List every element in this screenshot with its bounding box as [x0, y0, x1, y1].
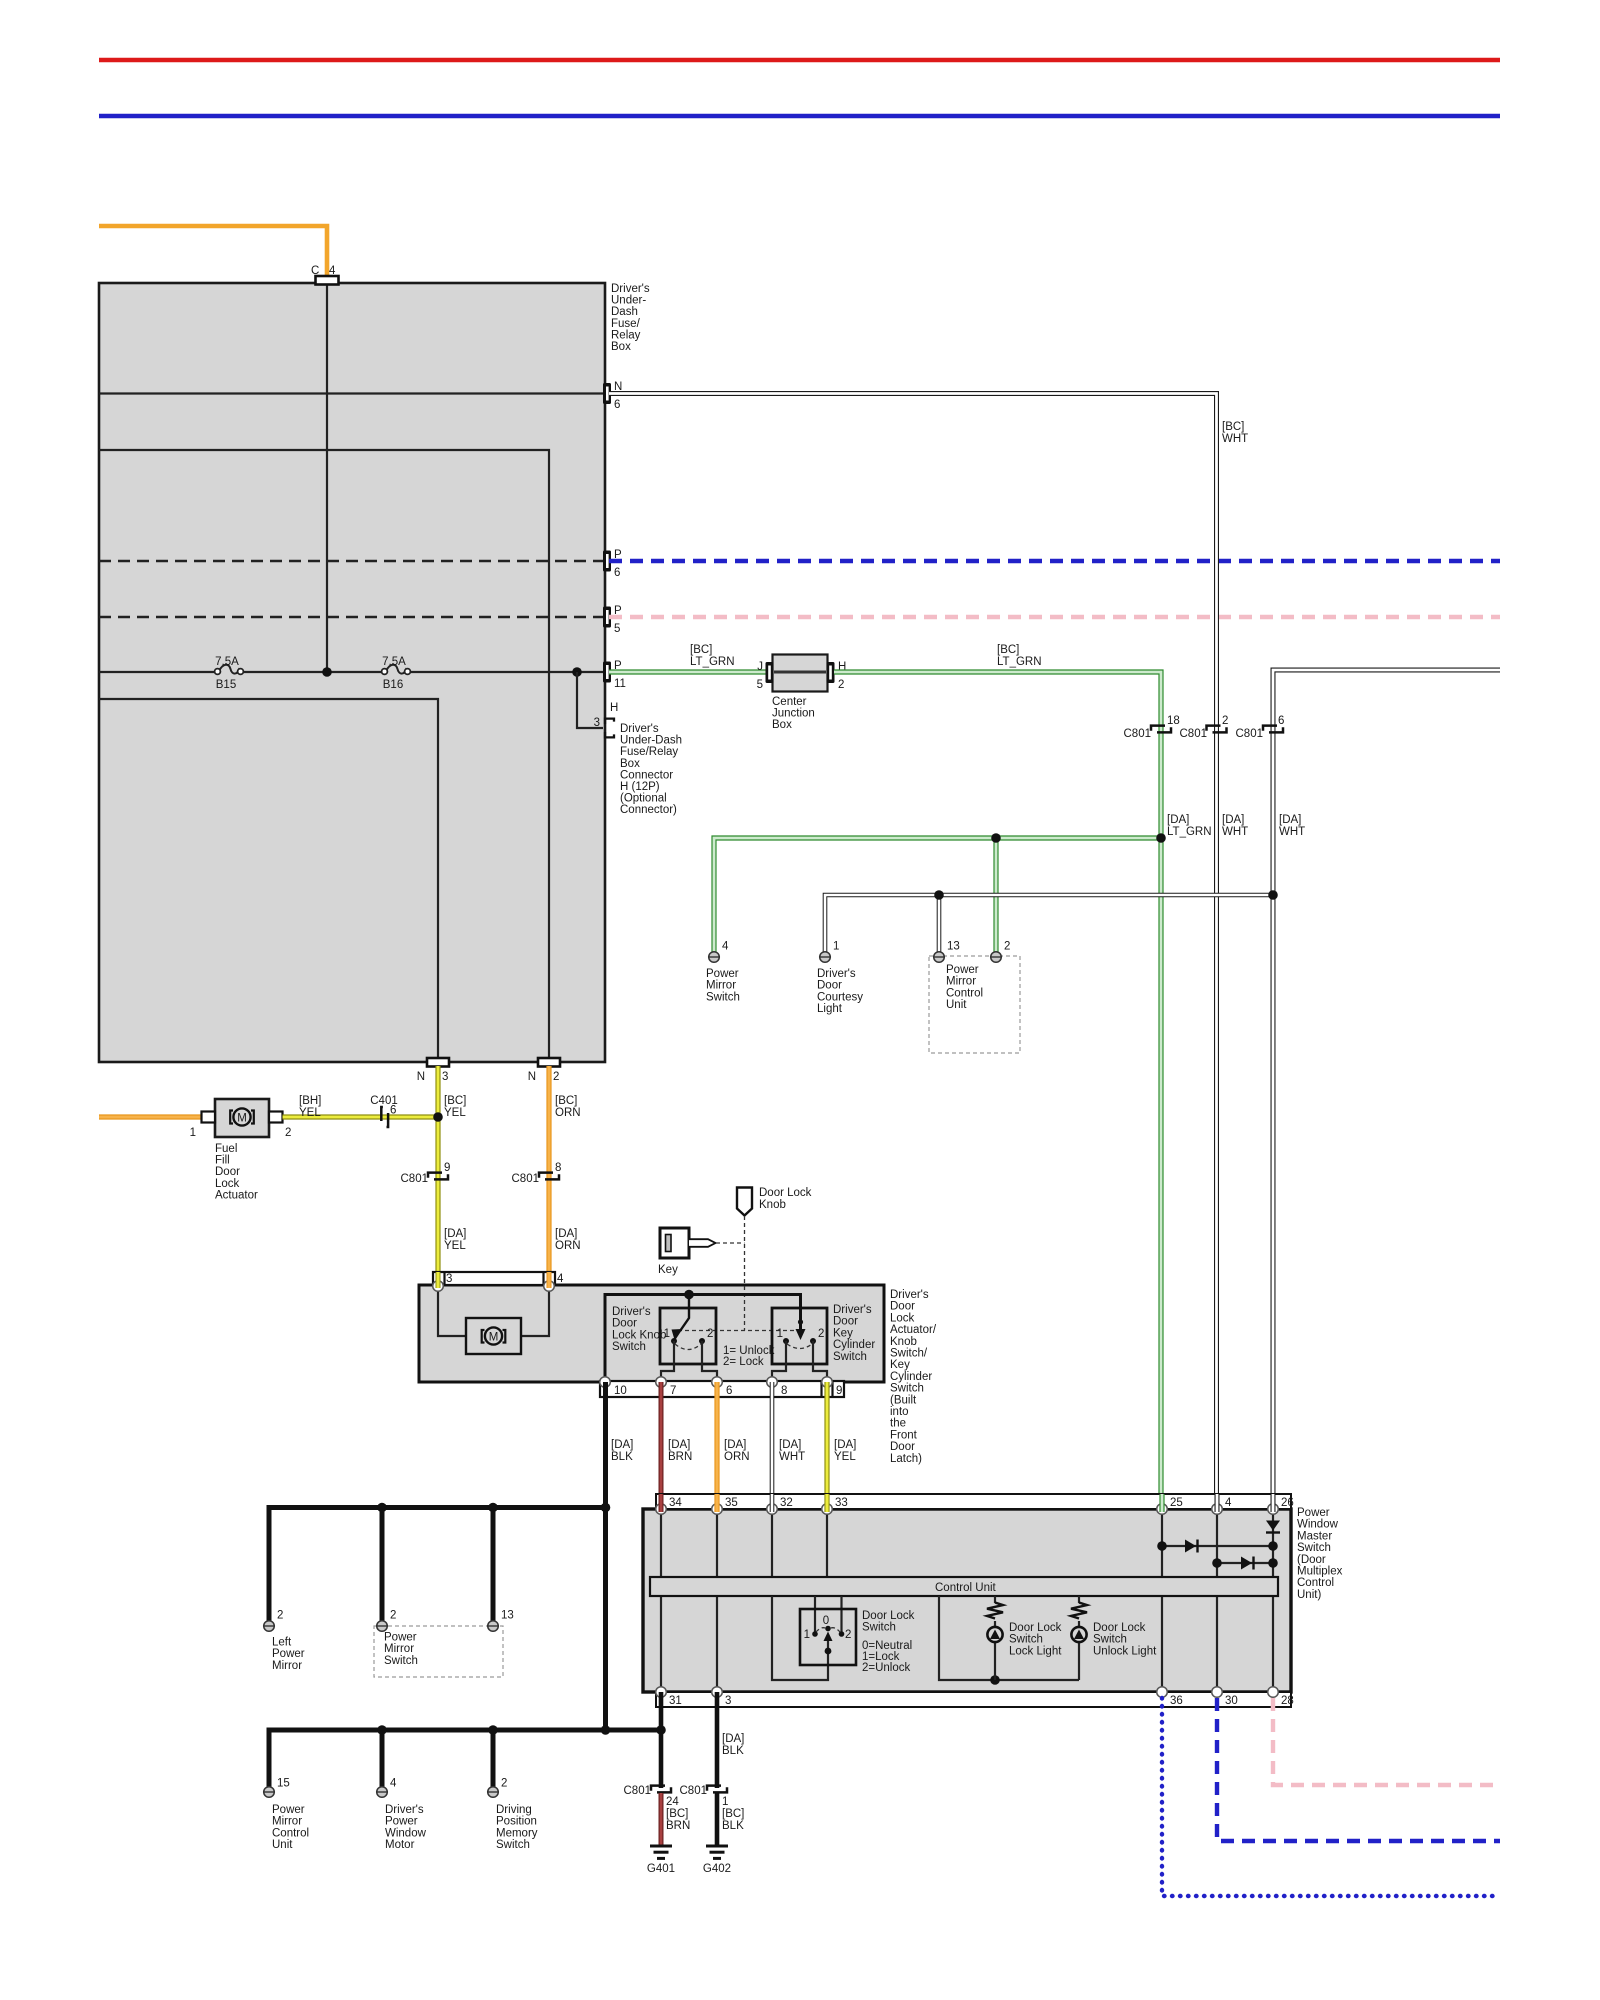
connector N2 (box bottom edge)	[528, 1058, 560, 1083]
svg-text:Box: Box	[772, 719, 792, 731]
svg-text:2: 2	[553, 1071, 559, 1083]
master switch top connector strip	[656, 1494, 1294, 1509]
svg-text:Driver's: Driver's	[611, 283, 650, 295]
wire: dashed bus to connector P6	[99, 560, 605, 562]
svg-text:26: 26	[1281, 1497, 1294, 1509]
svg-text:Switch: Switch	[1009, 1634, 1043, 1646]
svg-text:35: 35	[725, 1497, 738, 1509]
svg-text:18: 18	[1167, 715, 1180, 727]
svg-text:Switch: Switch	[833, 1351, 867, 1363]
wire: [DA] BRN terminal 7 to pin 34	[661, 1382, 692, 1509]
svg-text:Left: Left	[272, 1637, 292, 1649]
connector P5 (box right edge)	[603, 607, 611, 628]
master switch bottom connector strip	[656, 1692, 1294, 1707]
diode on pin 26 wire	[1266, 1521, 1280, 1533]
svg-text:ORN: ORN	[724, 1451, 750, 1463]
svg-text:2: 2	[277, 1610, 283, 1622]
svg-text:C801: C801	[1236, 728, 1264, 740]
svg-text:J: J	[757, 661, 763, 673]
svg-text:B16: B16	[383, 679, 403, 691]
wire: bus to connector N6	[99, 392, 605, 394]
svg-text:WHT: WHT	[779, 1451, 805, 1463]
svg-text:6: 6	[614, 399, 620, 411]
svg-text:C801: C801	[680, 1785, 708, 1797]
svg-text:H (12P): H (12P)	[620, 781, 660, 793]
diode row from pin 25	[1157, 1540, 1278, 1553]
svg-text:4: 4	[722, 941, 729, 953]
svg-text:2= Lock: 2= Lock	[723, 1356, 764, 1368]
svg-text:BRN: BRN	[668, 1451, 692, 1463]
wire: orange feed to fuel fill actuator	[99, 1114, 203, 1119]
svg-text:7.5A: 7.5A	[215, 656, 239, 668]
svg-text:Switch: Switch	[890, 1383, 924, 1395]
mechanical dashed link: key to knob rod	[716, 1242, 745, 1244]
junction node knob lever	[684, 1290, 694, 1300]
svg-text:1: 1	[190, 1127, 196, 1139]
wire: [DA] WHT terminal 8 to pin 32	[772, 1382, 805, 1509]
wire: white branch courtesy light	[825, 895, 1273, 957]
svg-text:2: 2	[285, 1127, 291, 1139]
svg-text:Door: Door	[817, 980, 842, 992]
wire: [BC] LT_GRN from junction box to door multiplex	[834, 644, 1161, 1509]
svg-text:[DA]: [DA]	[444, 1228, 466, 1240]
svg-text:Window: Window	[385, 1827, 427, 1839]
svg-text:8: 8	[781, 1385, 787, 1397]
Door Lock Knob icon	[737, 1187, 812, 1216]
svg-text:25: 25	[1170, 1497, 1183, 1509]
svg-text:Driver's: Driver's	[385, 1804, 424, 1816]
svg-text:Power: Power	[946, 964, 979, 976]
wire: bus to connector N2	[99, 450, 549, 1058]
wire: fused bus to connector P11	[99, 671, 605, 673]
terminal circles master switch bottom	[656, 1687, 667, 1698]
svg-text:Door Lock: Door Lock	[759, 1187, 812, 1199]
terminal 2 and 13: Power Mirror Switch (dashed box)	[374, 1610, 514, 1678]
svg-text:[BH]: [BH]	[299, 1095, 321, 1107]
wire overlay through latch top strip (yellow)	[436, 1272, 441, 1288]
svg-text:Fuse/Relay: Fuse/Relay	[620, 746, 678, 758]
wire: [BC] LT_GRN from P11 to Center Junction Box	[609, 644, 768, 672]
svg-text:LT_GRN: LT_GRN	[997, 656, 1042, 668]
svg-text:Unit: Unit	[946, 999, 967, 1011]
svg-text:Switch: Switch	[496, 1839, 530, 1851]
connector C801 pin 6 (white wire)	[1236, 715, 1285, 740]
svg-text:[DA]: [DA]	[1167, 814, 1189, 826]
svg-text:[DA]: [DA]	[555, 1228, 577, 1240]
connector C801 pin 1	[680, 1785, 729, 1808]
svg-text:9: 9	[836, 1385, 842, 1397]
svg-text:Driver's: Driver's	[890, 1289, 929, 1301]
svg-text:6: 6	[726, 1385, 732, 1397]
svg-text:[DA]: [DA]	[722, 1733, 744, 1745]
svg-text:Driver's: Driver's	[833, 1304, 872, 1316]
svg-text:Door: Door	[833, 1316, 858, 1328]
svg-text:31: 31	[669, 1695, 682, 1707]
Power Window Master Switch (Door Multiplex Control Unit)	[643, 1509, 1291, 1692]
ground G402	[703, 1846, 731, 1875]
Driver's Under-Dash Fuse/Relay Box	[99, 283, 605, 1062]
svg-text:2: 2	[707, 1328, 713, 1340]
svg-text:N: N	[528, 1071, 536, 1083]
svg-text:11: 11	[614, 678, 626, 690]
wire: pink dashed from P5	[609, 615, 1500, 619]
svg-text:2=Unlock: 2=Unlock	[862, 1662, 911, 1674]
junction node white at mirror control unit	[934, 890, 944, 900]
svg-text:Front: Front	[890, 1429, 918, 1441]
wire: pin 3 [DA] BLK to ground G402	[717, 1692, 744, 1788]
internal wires top pins to control unit	[661, 1509, 1273, 1577]
svg-text:Box: Box	[620, 758, 640, 770]
svg-text:Center: Center	[772, 696, 807, 708]
connector C401 pin 6	[370, 1095, 398, 1127]
svg-text:Power: Power	[272, 1648, 305, 1660]
svg-text:YEL: YEL	[834, 1451, 856, 1463]
connector C4 (box top edge)	[311, 265, 339, 285]
connector C801 pin 24	[624, 1785, 680, 1808]
svg-text:Door: Door	[215, 1166, 240, 1178]
svg-text:YEL: YEL	[299, 1107, 321, 1119]
wire: [BH] YEL actuator to junction	[283, 1095, 439, 1119]
wire: pin 28 pink dashed	[1273, 1698, 1500, 1785]
Driver's Door Lock Knob Switch box	[612, 1306, 716, 1364]
knob switch lever with arrow	[672, 1296, 690, 1341]
svg-text:1: 1	[722, 1796, 728, 1808]
svg-text:Door: Door	[612, 1318, 637, 1330]
svg-text:4: 4	[557, 1273, 564, 1285]
svg-text:2: 2	[1222, 715, 1228, 727]
svg-text:[DA]: [DA]	[724, 1439, 746, 1451]
svg-text:15: 15	[277, 1778, 290, 1790]
svg-text:Connector): Connector)	[620, 804, 677, 816]
terminal 1: Driver's Door Courtesy Light	[817, 941, 863, 1016]
svg-text:4: 4	[390, 1778, 397, 1790]
connector C801 pin 8 (orange wire)	[512, 1162, 562, 1185]
junction node white on pin-26 wire	[1268, 890, 1278, 900]
wire: C4 vertical feed inside box	[326, 283, 328, 672]
svg-text:34: 34	[669, 1497, 682, 1509]
terminal 15: Power Mirror Control Unit	[264, 1778, 309, 1852]
page header rule (blue)	[99, 114, 1500, 119]
svg-text:2: 2	[501, 1778, 507, 1790]
svg-text:BLK: BLK	[611, 1451, 633, 1463]
svg-text:[BC]: [BC]	[1222, 421, 1244, 433]
svg-text:[BC]: [BC]	[444, 1095, 466, 1107]
svg-text:WHT: WHT	[1222, 826, 1248, 838]
svg-text:Mirror: Mirror	[706, 980, 736, 992]
svg-text:Switch: Switch	[384, 1655, 418, 1667]
svg-text:Unit): Unit)	[1297, 1589, 1321, 1601]
wire: [BC] BRN to ground	[661, 1793, 690, 1845]
svg-text:30: 30	[1225, 1695, 1238, 1707]
svg-text:[BC]: [BC]	[666, 1808, 688, 1820]
svg-text:2: 2	[845, 1629, 851, 1641]
svg-text:3: 3	[446, 1273, 452, 1285]
svg-text:Control: Control	[946, 987, 983, 999]
connector N3 (box bottom edge)	[417, 1058, 449, 1083]
svg-text:C801: C801	[1124, 728, 1152, 740]
svg-text:7.5A: 7.5A	[382, 656, 406, 668]
terminal circles master switch top	[656, 1504, 667, 1515]
svg-text:36: 36	[1170, 1695, 1183, 1707]
connector N6 (box right edge)	[603, 383, 611, 404]
connector J5 (junction box left edge)	[757, 661, 774, 691]
svg-text:Lock Light: Lock Light	[1009, 1645, 1062, 1657]
svg-text:6: 6	[390, 1105, 396, 1117]
terminal circles latch pins 3,4	[433, 1281, 444, 1292]
Door Lock Switch Lock Light	[987, 1596, 1062, 1680]
connector P6 (box right edge)	[603, 551, 611, 572]
svg-text:Lock: Lock	[890, 1312, 915, 1324]
svg-text:[DA]: [DA]	[611, 1439, 633, 1451]
motor M (fuel fill actuator)	[230, 1108, 254, 1125]
svg-text:Switch: Switch	[862, 1622, 896, 1634]
terminal 4: Driver's Power Window Motor	[377, 1778, 427, 1852]
svg-text:[DA]: [DA]	[779, 1439, 801, 1451]
svg-text:Switch/: Switch/	[890, 1348, 928, 1360]
junction node green branch	[1156, 833, 1166, 843]
svg-text:Fuse/: Fuse/	[611, 318, 641, 330]
svg-text:2: 2	[838, 679, 844, 691]
connector H2 (junction box right edge)	[827, 661, 847, 691]
svg-text:Switch: Switch	[706, 991, 740, 1003]
assembly label	[890, 1289, 937, 1465]
svg-text:C801: C801	[401, 1173, 429, 1185]
svg-text:Power: Power	[385, 1816, 418, 1828]
svg-text:YEL: YEL	[444, 1240, 466, 1252]
wire: [BC]/[DA] YEL from N3 to latch pin 3	[438, 1066, 466, 1286]
svg-text:Box: Box	[611, 341, 631, 353]
ground G401	[647, 1846, 675, 1875]
svg-text:Switch: Switch	[1297, 1542, 1331, 1554]
svg-text:Under-: Under-	[611, 295, 646, 307]
Door Lock Switch (control unit)	[772, 1596, 915, 1680]
svg-text:Lock Knob: Lock Knob	[612, 1329, 666, 1341]
svg-text:Actuator/: Actuator/	[890, 1324, 937, 1336]
svg-text:Under-Dash: Under-Dash	[620, 735, 682, 747]
svg-text:32: 32	[780, 1497, 793, 1509]
svg-text:Key: Key	[833, 1327, 853, 1339]
svg-text:3: 3	[725, 1695, 731, 1707]
svg-text:into: into	[890, 1406, 909, 1418]
svg-text:M: M	[489, 1332, 499, 1344]
svg-text:Driving: Driving	[496, 1804, 532, 1816]
svg-text:Master: Master	[1297, 1530, 1332, 1542]
svg-text:Motor: Motor	[385, 1839, 415, 1851]
svg-text:[BC]: [BC]	[555, 1095, 577, 1107]
Control Unit bar	[650, 1577, 1278, 1596]
wire: knob switch pin 2 to terminal 6	[702, 1341, 717, 1381]
connector C801 pin 9 (yellow wire)	[401, 1162, 451, 1185]
svg-text:G401: G401	[647, 1863, 675, 1875]
wire: black bus upper (mirrors)	[269, 1508, 606, 1622]
svg-text:LT_GRN: LT_GRN	[690, 656, 735, 668]
svg-text:Latch): Latch)	[890, 1453, 922, 1465]
wire: bus to connector N3	[99, 699, 438, 1058]
Driver's Door Lock Actuator assembly (gray box)	[419, 1285, 884, 1382]
svg-text:(Optional: (Optional	[620, 793, 667, 805]
svg-text:Light: Light	[817, 1003, 843, 1015]
Driver's Door Key Cylinder Switch box	[772, 1304, 875, 1364]
junction node on fuse bus to H connector	[572, 667, 582, 677]
Fuel Fill Door Lock Actuator	[190, 1099, 292, 1201]
mechanical dashed link: to key cylinder switch	[678, 1330, 800, 1332]
wire: [BC]/[DA] ORN from N2 to latch pin 4	[549, 1066, 581, 1286]
wire: [BC] BLK to ground	[717, 1793, 744, 1845]
svg-text:ORN: ORN	[555, 1107, 581, 1119]
Door Lock Switch Unlock Light	[1071, 1596, 1157, 1680]
svg-text:Control: Control	[1297, 1577, 1334, 1589]
svg-text:Door Lock: Door Lock	[1093, 1622, 1146, 1634]
svg-text:the: the	[890, 1418, 906, 1430]
svg-text:0: 0	[823, 1615, 829, 1627]
wire overlay through latch top strip (orange)	[547, 1272, 552, 1288]
svg-text:Relay: Relay	[611, 329, 641, 341]
svg-text:Power: Power	[1297, 1507, 1330, 1519]
lamp return wire	[939, 1596, 1079, 1680]
arrowhead key cylinder contact	[796, 1329, 806, 1340]
svg-text:Mirror: Mirror	[272, 1816, 302, 1828]
svg-text:Fuel: Fuel	[215, 1143, 237, 1155]
terminal 4: Power Mirror Switch	[706, 941, 740, 1004]
svg-text:Key: Key	[890, 1359, 910, 1371]
svg-text:[BC]: [BC]	[722, 1808, 744, 1820]
svg-text:2: 2	[818, 1328, 824, 1340]
svg-text:YEL: YEL	[444, 1107, 466, 1119]
svg-text:Multiplex: Multiplex	[1297, 1566, 1343, 1578]
svg-text:Unit: Unit	[272, 1839, 293, 1851]
wire: key switch pin 1 to terminal 8	[772, 1341, 786, 1381]
svg-text:Cylinder: Cylinder	[833, 1339, 875, 1351]
wire: pin 36 blue dotted	[1162, 1698, 1500, 1896]
svg-text:Memory: Memory	[496, 1827, 538, 1839]
svg-text:C801: C801	[624, 1785, 652, 1797]
svg-text:2: 2	[390, 1610, 396, 1622]
svg-text:Dash: Dash	[611, 306, 638, 318]
svg-text:Knob: Knob	[890, 1336, 917, 1348]
wire: orange battery feed to C4	[99, 226, 327, 277]
svg-text:Cylinder: Cylinder	[890, 1371, 932, 1383]
svg-text:4: 4	[1225, 1497, 1232, 1509]
svg-text:Junction: Junction	[772, 708, 815, 720]
svg-text:C801: C801	[1180, 728, 1208, 740]
svg-text:Driver's: Driver's	[612, 1306, 651, 1318]
terminal 2: Driving Position Memory Switch	[488, 1778, 538, 1852]
svg-text:H: H	[610, 702, 618, 714]
junction node yellow	[433, 1112, 443, 1122]
small node on key cylinder rod	[798, 1319, 803, 1324]
svg-text:Door: Door	[890, 1441, 915, 1453]
svg-text:Mirror: Mirror	[384, 1643, 414, 1655]
svg-text:Mirror: Mirror	[946, 976, 976, 988]
svg-text:3: 3	[442, 1071, 448, 1083]
wire: knob switch common bus (pin 10 to key cylinder)	[605, 1295, 801, 1382]
svg-text:Position: Position	[496, 1816, 537, 1828]
svg-text:Fill: Fill	[215, 1155, 230, 1167]
wire: pin 31 to ground G401	[659, 1692, 664, 1788]
junction node on fuse bus at C4 feed	[322, 667, 332, 677]
svg-text:Switch: Switch	[1093, 1634, 1127, 1646]
svg-text:2: 2	[1004, 941, 1010, 953]
connector C801 pin 2 (white wire)	[1180, 715, 1229, 740]
svg-text:(Door: (Door	[1297, 1554, 1326, 1566]
Center Junction Box	[772, 655, 828, 732]
wire: WHT from right margin down to pin 26	[1273, 670, 1500, 1509]
page header rule (red)	[99, 58, 1500, 63]
diode row from pin 4	[1212, 1557, 1278, 1570]
svg-text:24: 24	[666, 1796, 679, 1808]
svg-text:Door Lock: Door Lock	[1009, 1622, 1062, 1634]
fuse B16 7.5A	[382, 656, 411, 691]
svg-text:[DA]: [DA]	[668, 1439, 690, 1451]
terminal 13 and 2: Power Mirror Control Unit (dashed box)	[929, 941, 1020, 1054]
Key icon	[658, 1228, 716, 1276]
svg-text:Connector: Connector	[620, 769, 673, 781]
svg-text:6: 6	[614, 567, 620, 579]
svg-text:Switch: Switch	[612, 1341, 646, 1353]
wire: dashed bus to connector P5	[99, 616, 605, 618]
svg-text:7: 7	[670, 1385, 676, 1397]
svg-text:Key: Key	[658, 1264, 678, 1276]
svg-text:[BC]: [BC]	[997, 644, 1019, 656]
wire: black bus lower (mirrors)	[269, 1730, 661, 1787]
svg-text:Power: Power	[384, 1632, 417, 1644]
wire: pin 30 blue dashed	[1217, 1698, 1500, 1841]
svg-text:10: 10	[614, 1385, 627, 1397]
wire overlays through master top strip	[661, 1494, 1273, 1512]
latch top connector strip pins 3,4	[433, 1272, 564, 1285]
svg-text:C: C	[311, 265, 319, 277]
svg-text:[DA]: [DA]	[834, 1439, 856, 1451]
svg-text:1: 1	[804, 1629, 810, 1641]
connector C801 pin 18 (green wire)	[1124, 715, 1180, 740]
svg-text:3: 3	[594, 717, 600, 729]
terminal 2: Left Power Mirror	[264, 1610, 305, 1672]
svg-text:Mirror: Mirror	[272, 1660, 302, 1672]
wire: [BC] WHT from N6 down to pin 4	[609, 394, 1248, 1510]
svg-text:ORN: ORN	[555, 1240, 581, 1252]
svg-text:Driver's: Driver's	[620, 723, 659, 735]
svg-text:Actuator: Actuator	[215, 1189, 258, 1201]
svg-text:5: 5	[757, 679, 763, 691]
svg-text:Control: Control	[272, 1827, 309, 1839]
svg-text:Lock: Lock	[215, 1178, 240, 1190]
svg-text:Knob: Knob	[759, 1199, 786, 1211]
svg-text:[DA]: [DA]	[1222, 814, 1244, 826]
connector P11 (box right edge)	[603, 662, 611, 683]
svg-text:WHT: WHT	[1222, 433, 1248, 445]
svg-text:9: 9	[444, 1162, 450, 1174]
svg-text:1: 1	[777, 1328, 783, 1340]
svg-text:WHT: WHT	[1279, 826, 1305, 838]
svg-text:8: 8	[555, 1162, 561, 1174]
svg-text:[DA]: [DA]	[1279, 814, 1301, 826]
junction node green at mirror control unit	[991, 833, 1001, 843]
svg-text:13: 13	[947, 941, 960, 953]
svg-text:M: M	[237, 1113, 247, 1125]
wire: green branch to power mirror switch / control unit	[714, 838, 1161, 957]
fuse B15 7.5A	[215, 656, 244, 691]
svg-text:4: 4	[329, 265, 336, 277]
wire: [DA] YEL terminal 9 to pin 33	[827, 1382, 856, 1509]
svg-text:G402: G402	[703, 1863, 731, 1875]
svg-text:LT_GRN: LT_GRN	[1167, 826, 1212, 838]
wire: stub to optional connector H pin 3	[577, 672, 603, 728]
svg-text:Power: Power	[272, 1804, 305, 1816]
svg-text:C801: C801	[512, 1173, 540, 1185]
svg-text:B15: B15	[216, 679, 236, 691]
svg-text:Courtesy: Courtesy	[817, 991, 863, 1003]
svg-text:Power: Power	[706, 968, 739, 980]
